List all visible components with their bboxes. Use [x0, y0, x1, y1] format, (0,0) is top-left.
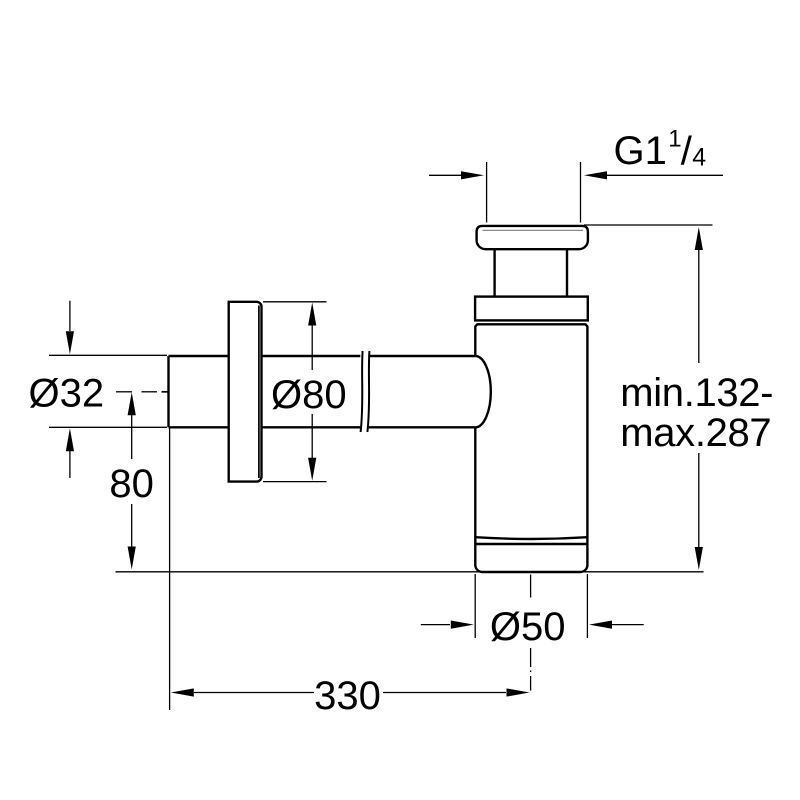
svg-text:4: 4 — [692, 144, 706, 172]
svg-text:G1: G1 — [614, 129, 667, 173]
svg-text:1: 1 — [668, 125, 681, 152]
svg-text:Ø50: Ø50 — [490, 605, 566, 649]
svg-text:/: / — [681, 129, 693, 173]
svg-text:80: 80 — [109, 462, 154, 506]
svg-text:max.287: max.287 — [620, 411, 771, 455]
svg-text:Ø32: Ø32 — [29, 372, 105, 416]
svg-text:min.132-: min.132- — [620, 371, 773, 415]
svg-text:Ø80: Ø80 — [271, 373, 347, 417]
svg-text:330: 330 — [314, 674, 381, 718]
